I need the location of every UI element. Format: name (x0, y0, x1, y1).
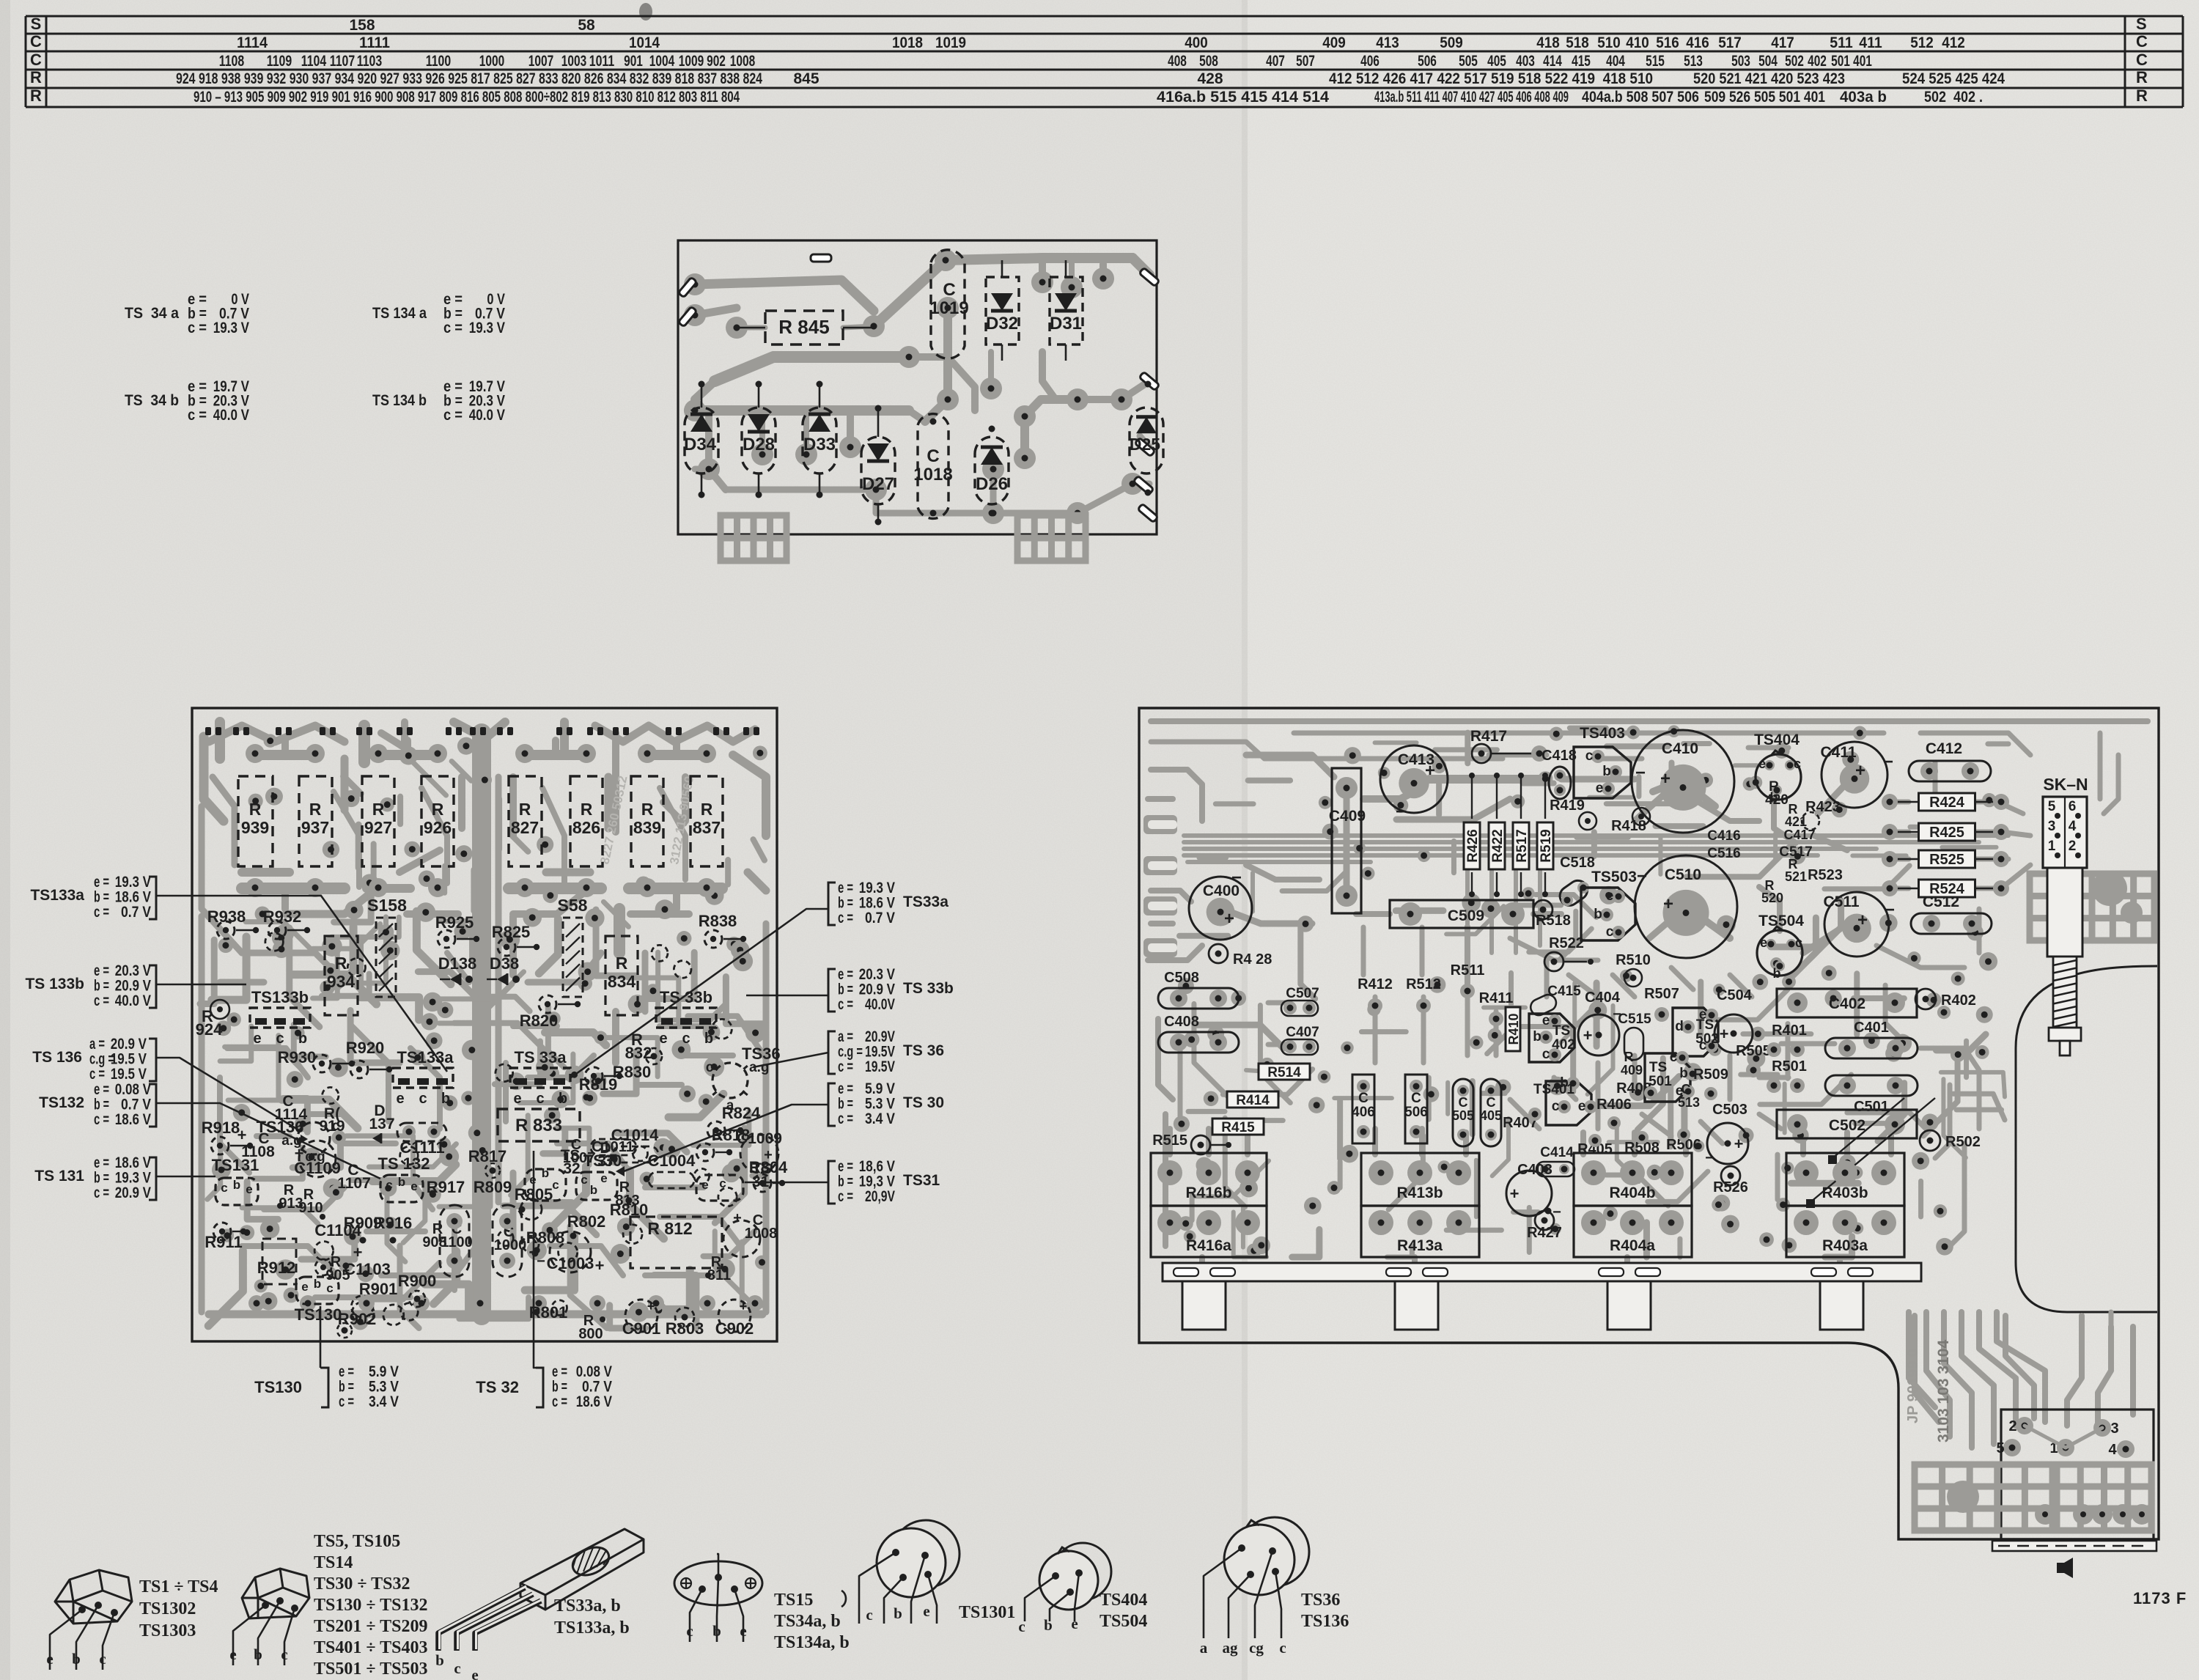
svg-text:R901: R901 (359, 1280, 398, 1298)
svg-text:TS: TS (1552, 1023, 1570, 1039)
svg-text:R916: R916 (374, 1214, 413, 1232)
svg-text:TS130: TS130 (254, 1378, 302, 1396)
svg-text:cg: cg (1249, 1639, 1264, 1657)
resistor R845 (765, 311, 843, 345)
transistor TS402 (1529, 1014, 1574, 1062)
svg-text:TS 132: TS 132 (378, 1154, 430, 1173)
svg-text:19.3 V: 19.3 V (469, 320, 505, 336)
transistor TS502 (1673, 1008, 1718, 1056)
svg-text:520 521 421 420 523 423: 520 521 421 420 523 423 (1693, 70, 1845, 87)
svg-text:e: e (396, 1091, 404, 1107)
svg-text:b: b (590, 1183, 597, 1197)
svg-text:e: e (659, 1031, 667, 1047)
capacitor C402 (1777, 989, 1917, 1017)
svg-text:+: + (1510, 1185, 1520, 1203)
svg-text:b: b (233, 1178, 240, 1192)
ink smudge top center (639, 3, 652, 21)
svg-text:a: a (1200, 1639, 1208, 1657)
svg-text:3.4 V: 3.4 V (865, 1110, 895, 1127)
capacitor C511 (1824, 892, 1889, 957)
svg-text:C516: C516 (1707, 846, 1740, 861)
svg-text:c: c (1795, 935, 1802, 950)
upper PCB pads (684, 273, 706, 295)
svg-text:R511: R511 (1451, 962, 1485, 979)
solder pads right PCB (1713, 1195, 1730, 1212)
svg-text:513: 513 (1684, 53, 1703, 70)
svg-text:S58: S58 (558, 896, 588, 915)
svg-text:D28: D28 (743, 435, 775, 454)
svg-text:C: C (2136, 51, 2148, 69)
svg-text:405: 405 (1480, 1108, 1502, 1123)
svg-text:R918: R918 (202, 1119, 240, 1137)
resistor R839 (631, 776, 663, 866)
svg-text:845: 845 (793, 70, 819, 87)
svg-text:R: R (1624, 1050, 1634, 1064)
bottom hatch grid right (2057, 1465, 2151, 1530)
package drawing TS33 power body (520, 1529, 644, 1610)
svg-text:403a b: 403a b (1840, 89, 1887, 106)
page fold shading left half (0, 0, 1248, 1680)
svg-text:R830: R830 (613, 1063, 652, 1081)
svg-text:409: 409 (1621, 1063, 1643, 1077)
svg-text:TS504: TS504 (1099, 1612, 1147, 1631)
svg-text:R: R (309, 800, 322, 819)
svg-text:e: e (513, 1091, 521, 1107)
svg-text:R930: R930 (278, 1048, 317, 1066)
svg-text:1114: 1114 (237, 34, 268, 51)
svg-text:924: 924 (196, 1020, 223, 1039)
connector block right upper PCB (1017, 515, 1086, 561)
svg-text:R507: R507 (1644, 986, 1679, 1002)
svg-text:R820: R820 (520, 1012, 559, 1030)
svg-text:R810: R810 (610, 1201, 649, 1219)
pointer wire TS30 (620, 1105, 828, 1173)
svg-text:910: 910 (298, 1200, 323, 1216)
transistor TS133a (393, 1068, 453, 1088)
svg-text:c: c (682, 1031, 690, 1047)
resistor R425 (1890, 831, 1919, 833)
transistor TS401 (1546, 1081, 1591, 1125)
loudspeaker icon (2057, 1558, 2073, 1578)
svg-text:b: b (712, 1622, 721, 1640)
svg-text:C501: C501 (1854, 1099, 1889, 1115)
svg-text:TS1303: TS1303 (139, 1621, 196, 1640)
svg-text:c: c (386, 1178, 392, 1192)
package drawing TS404 can (1054, 1543, 1111, 1600)
svg-text:b: b (1044, 1616, 1053, 1634)
svg-text:c: c (1279, 1639, 1286, 1657)
right PCB edge connector slots (1143, 815, 1177, 834)
svg-text:c =: c = (552, 1393, 567, 1410)
svg-text:e: e (1596, 781, 1604, 796)
svg-text:C509: C509 (1448, 907, 1484, 924)
resistor pack R404b (1574, 1153, 1692, 1206)
svg-text:C508: C508 (1164, 970, 1199, 986)
svg-text:R817: R817 (468, 1147, 507, 1165)
svg-text:C902: C902 (715, 1319, 754, 1338)
svg-text:c: c (581, 1173, 587, 1187)
svg-text:R501: R501 (1772, 1058, 1807, 1075)
svg-text:R410: R410 (1506, 1013, 1521, 1045)
svg-text:18.6 V: 18.6 V (576, 1393, 612, 1410)
svg-text:40.0 V: 40.0 V (115, 992, 151, 1009)
svg-text:+: + (353, 1243, 363, 1261)
svg-text:502 402 .: 502 402 . (1924, 89, 1983, 106)
svg-text:1100: 1100 (441, 1234, 472, 1250)
svg-text:517: 517 (1718, 34, 1742, 51)
capacitor C411 (1822, 742, 1887, 808)
svg-text:902: 902 (707, 53, 726, 70)
svg-text:R809: R809 (474, 1178, 512, 1196)
resistor R927 (362, 776, 394, 866)
heatsink tab (1395, 1281, 1438, 1330)
svg-text:b: b (254, 1646, 262, 1663)
svg-text:826: 826 (572, 818, 600, 837)
svg-text:TS136: TS136 (1301, 1612, 1349, 1631)
svg-text:c: c (276, 1031, 284, 1047)
svg-text:1004: 1004 (649, 53, 675, 70)
svg-text:R 845: R 845 (778, 316, 829, 338)
svg-text:D34: D34 (684, 435, 717, 454)
svg-text:58: 58 (578, 17, 595, 34)
resistor R937 (299, 776, 332, 866)
svg-text:3: 3 (2110, 1421, 2118, 1437)
resistor R812 (630, 1217, 722, 1268)
svg-text:−: − (537, 1253, 545, 1270)
svg-text:509 526 505 501 401: 509 526 505 501 401 (1704, 89, 1825, 106)
diode D27 (861, 437, 895, 504)
svg-text:TS 33b: TS 33b (660, 988, 712, 1006)
svg-text:+: + (733, 1210, 742, 1226)
svg-text:c =: c = (188, 320, 207, 336)
svg-text:TS 134 b: TS 134 b (372, 392, 427, 409)
package TS5 leads (233, 1605, 265, 1665)
pointer wire TS32 (534, 1151, 543, 1368)
svg-text:TS133a: TS133a (30, 887, 84, 904)
jack nut and tip (2049, 1028, 2081, 1041)
svg-text:b: b (1602, 764, 1611, 779)
svg-text:TS15: TS15 (774, 1591, 813, 1610)
resistor pack R403a (1786, 1206, 1904, 1257)
svg-text:−: − (1885, 900, 1895, 920)
svg-text:R: R (701, 800, 713, 819)
svg-text:137: 137 (369, 1116, 394, 1132)
svg-text:6: 6 (2069, 799, 2077, 814)
svg-text:506: 506 (1404, 1105, 1428, 1120)
svg-text:1000: 1000 (479, 53, 504, 70)
svg-text:1018: 1018 (892, 34, 923, 51)
svg-text:800: 800 (578, 1326, 603, 1342)
heatsink tab (1820, 1281, 1863, 1330)
svg-text:R 812: R 812 (647, 1219, 692, 1238)
svg-text:TS30 ÷ TS32: TS30 ÷ TS32 (314, 1574, 410, 1594)
svg-text:415: 415 (1572, 53, 1591, 70)
svg-text:R414: R414 (1236, 1093, 1270, 1108)
resistor R424 (1890, 801, 1919, 803)
svg-text:JP 90199 0: JP 90199 0 (1905, 1349, 1921, 1423)
dashed part circles left PCB (496, 1064, 513, 1082)
svg-text:518: 518 (1566, 34, 1589, 51)
svg-text:404: 404 (1606, 53, 1625, 70)
svg-text:e: e (410, 1179, 417, 1193)
svg-text:b: b (1533, 1029, 1541, 1045)
svg-text:402: 402 (1808, 53, 1827, 70)
svg-text:409: 409 (1322, 34, 1346, 51)
svg-text:D25: D25 (1130, 435, 1160, 454)
svg-text:428: 428 (1197, 70, 1223, 87)
svg-text:+: + (740, 1299, 748, 1314)
svg-text:R522: R522 (1549, 935, 1584, 951)
capacitor C509 (1390, 900, 1533, 928)
svg-text:401: 401 (1853, 53, 1872, 70)
svg-text:C: C (30, 32, 42, 51)
resistor R833 (498, 1109, 580, 1141)
svg-text:R825: R825 (492, 923, 531, 941)
svg-text:R413b: R413b (1396, 1185, 1443, 1201)
package drawing TS1-TS4 body (55, 1570, 132, 1624)
capacitor C1011 (591, 1139, 636, 1155)
svg-text:TS 131: TS 131 (34, 1168, 84, 1185)
svg-text:520: 520 (1761, 891, 1783, 905)
right side verticals right PCB (2109, 1312, 2114, 1356)
svg-text:c =: c = (838, 1188, 853, 1205)
svg-text:e: e (1578, 1099, 1586, 1114)
capacitor C400 (1189, 877, 1252, 940)
resistor R911 (213, 1223, 231, 1240)
svg-text:C404: C404 (1585, 990, 1621, 1006)
svg-text:R808: R808 (526, 1228, 565, 1247)
svg-text:c =: c = (339, 1393, 354, 1410)
capacitor C505 (1453, 1079, 1473, 1146)
svg-text:c: c (1670, 1050, 1678, 1065)
svg-text:511: 511 (1830, 34, 1853, 51)
resistor R920 (350, 1061, 368, 1078)
svg-text:TS133a: TS133a (397, 1048, 454, 1066)
svg-text:R510: R510 (1616, 952, 1651, 968)
svg-text:158: 158 (349, 17, 375, 34)
svg-text:−: − (1231, 868, 1242, 888)
svg-text:408: 408 (1168, 53, 1187, 70)
svg-text:406: 406 (1352, 1105, 1375, 1120)
svg-text:509: 509 (1440, 34, 1463, 51)
svg-text:1: 1 (2048, 839, 2056, 854)
svg-text:C: C (30, 51, 42, 69)
svg-text:R402: R402 (1941, 992, 1976, 1009)
svg-text:R: R (641, 800, 654, 819)
svg-text:C1009: C1009 (737, 1130, 782, 1147)
svg-text:0.7 V: 0.7 V (865, 910, 895, 926)
svg-text:513: 513 (1678, 1095, 1700, 1110)
diode D32 (986, 277, 1019, 345)
svg-text:C: C (1682, 1082, 1691, 1097)
svg-text:TS33a: TS33a (903, 894, 949, 910)
resistor pack R404a (1574, 1206, 1692, 1257)
capacitor C506 (1405, 1075, 1427, 1143)
svg-text:1018: 1018 (913, 465, 952, 485)
svg-text:TS133a, b: TS133a, b (554, 1618, 630, 1637)
pointer wire TS136 (156, 1058, 299, 1130)
svg-text:c: c (1794, 756, 1801, 771)
svg-text:C1103: C1103 (344, 1260, 391, 1278)
svg-text:939: 939 (241, 818, 269, 837)
svg-text:410: 410 (1626, 34, 1649, 51)
svg-text:R505: R505 (1736, 1043, 1771, 1059)
svg-text:R838: R838 (699, 912, 737, 930)
svg-text:1111: 1111 (359, 34, 390, 51)
svg-text:827: 827 (511, 818, 539, 837)
svg-text:+: + (1224, 909, 1234, 929)
upper PCB outline (678, 240, 1157, 534)
svg-text:40.0V: 40.0V (865, 996, 895, 1013)
svg-text:C401: C401 (1854, 1020, 1889, 1036)
svg-text:0.7 V: 0.7 V (121, 904, 151, 921)
svg-text:c: c (1018, 1618, 1025, 1635)
pointer wire TS33b (746, 995, 828, 997)
svg-text:e: e (600, 1171, 607, 1185)
svg-text:404a.b 508 507 506: 404a.b 508 507 506 (1582, 89, 1699, 106)
svg-text:504: 504 (1758, 53, 1778, 70)
svg-text:TS 33b: TS 33b (903, 980, 954, 997)
svg-text:R422: R422 (1490, 829, 1506, 862)
svg-text:R: R (335, 954, 347, 973)
resistor R939 (238, 776, 273, 866)
svg-text:c =: c = (94, 1185, 109, 1201)
resistor R402 (1915, 989, 1936, 1009)
resistor R834 (605, 936, 638, 1015)
wire mesh right PCB (1337, 1099, 1343, 1159)
svg-text:R519: R519 (1539, 829, 1554, 862)
svg-text:TS132: TS132 (39, 1094, 84, 1111)
connector block left upper PCB (721, 515, 787, 561)
svg-text:TS130 ÷ TS132: TS130 ÷ TS132 (314, 1596, 427, 1615)
svg-text:4: 4 (2069, 819, 2077, 834)
svg-text:SK–N: SK–N (2043, 775, 2088, 794)
svg-text:+: + (1660, 769, 1671, 789)
svg-text:c: c (454, 1659, 460, 1677)
resistor R918 (211, 1137, 229, 1154)
svg-text:b: b (1594, 907, 1602, 922)
resistor R414 box (1227, 1091, 1278, 1108)
svg-text:924 918 938 939 932 930 937 93: 924 918 938 939 932 930 937 934 920 927 … (176, 70, 762, 87)
svg-text:910 – 913 905 909 902 919 901: 910 – 913 905 909 902 919 901 916 900 90… (194, 89, 740, 106)
package TS1301 leads (859, 1552, 896, 1624)
svg-text:c =: c = (838, 1110, 853, 1127)
resistor pack R413a (1361, 1206, 1479, 1257)
svg-text:e: e (740, 1622, 746, 1640)
svg-text:TS 134 a: TS 134 a (372, 305, 427, 322)
svg-text:−: − (1635, 763, 1646, 783)
diode D33 (803, 408, 836, 474)
svg-text:R426: R426 (1465, 829, 1481, 862)
left PCB outline (192, 708, 777, 1341)
svg-text:R900: R900 (398, 1272, 437, 1290)
svg-text:+: + (595, 1256, 605, 1275)
svg-text:R: R (581, 800, 593, 819)
svg-text:R415: R415 (1221, 1120, 1255, 1135)
svg-text:413a.b 511 411 407 410 427 405: 413a.b 511 411 407 410 427 405 406 408 4… (1374, 89, 1569, 106)
svg-text:c: c (419, 1091, 427, 1107)
resistor R820 (539, 995, 556, 1013)
resistor R824 (707, 1121, 725, 1139)
svg-text:5: 5 (2048, 799, 2056, 814)
svg-text:C: C (927, 446, 939, 466)
svg-text:TS501 ÷ TS503: TS501 ÷ TS503 (314, 1659, 427, 1679)
svg-text:TS 34 a: TS 34 a (125, 305, 179, 322)
svg-text:C507: C507 (1286, 986, 1319, 1001)
svg-text:R417: R417 (1470, 728, 1507, 745)
svg-text:R509: R509 (1693, 1066, 1728, 1083)
coil S58 (563, 918, 583, 997)
capacitor C1019 (931, 250, 965, 358)
transistor TS403 (1574, 747, 1631, 798)
svg-text:400: 400 (1185, 34, 1208, 51)
svg-text:1007: 1007 (563, 1150, 596, 1166)
svg-text:18.6 V: 18.6 V (115, 1111, 151, 1128)
resistor R838 (704, 930, 722, 948)
package drawing TS1301 can (892, 1520, 959, 1588)
svg-text:c: c (1606, 924, 1614, 940)
svg-text:R: R (519, 800, 531, 819)
svg-text:S: S (31, 15, 42, 33)
svg-text:c: c (719, 1176, 726, 1190)
svg-text:c =: c = (838, 910, 853, 926)
svg-text:R413a: R413a (1397, 1237, 1443, 1254)
svg-text:R 833: R 833 (515, 1116, 562, 1135)
svg-text:1008: 1008 (730, 53, 756, 70)
svg-text:C503: C503 (1712, 1102, 1747, 1118)
svg-text:926: 926 (424, 818, 452, 837)
capacitor C1018 (918, 414, 949, 519)
svg-text:40.0 V: 40.0 V (213, 407, 249, 424)
svg-text:C502: C502 (1829, 1117, 1865, 1134)
svg-text:524 525 425 424: 524 525 425 424 (1902, 70, 2005, 87)
svg-text:c =: c = (94, 1111, 109, 1128)
svg-text:e: e (46, 1650, 53, 1668)
svg-text:1014: 1014 (629, 34, 660, 51)
resistor R502 (1920, 1130, 1940, 1151)
transistor TS36 (712, 1063, 748, 1098)
svg-text:40.0 V: 40.0 V (469, 407, 505, 424)
svg-text:TS: TS (1649, 1060, 1667, 1075)
svg-text:R: R (372, 800, 385, 819)
capacitor C502 (1777, 1110, 1917, 1138)
svg-text:417: 417 (1771, 34, 1794, 51)
svg-text:R518: R518 (1536, 913, 1571, 929)
diode D25 (1130, 408, 1163, 474)
pointer wire TS36 (753, 1053, 828, 1067)
svg-text:e: e (471, 1666, 478, 1680)
svg-text:502: 502 (1785, 53, 1804, 70)
svg-text:1107: 1107 (330, 53, 355, 70)
package TS36 leads (1204, 1548, 1242, 1638)
svg-text:19.3 V: 19.3 V (213, 320, 249, 336)
resistor R932 (268, 921, 286, 939)
svg-text:+: + (1720, 1025, 1729, 1043)
jack screw thread (2053, 957, 2077, 1028)
resistor R934 (325, 936, 358, 1015)
svg-text:e: e (229, 1646, 236, 1663)
right PCB outline (1139, 708, 2159, 1539)
svg-text:C511: C511 (1823, 894, 1859, 910)
transistor TS501 (1645, 1053, 1690, 1102)
svg-text:b: b (72, 1650, 81, 1668)
svg-text:e: e (1758, 756, 1766, 771)
pointer wire TS132 (156, 1103, 380, 1179)
svg-text:R911: R911 (205, 1233, 242, 1251)
package drawing TS15 oval (674, 1561, 762, 1605)
svg-text:D32: D32 (986, 314, 1018, 334)
svg-text:19.5V: 19.5V (865, 1058, 895, 1075)
